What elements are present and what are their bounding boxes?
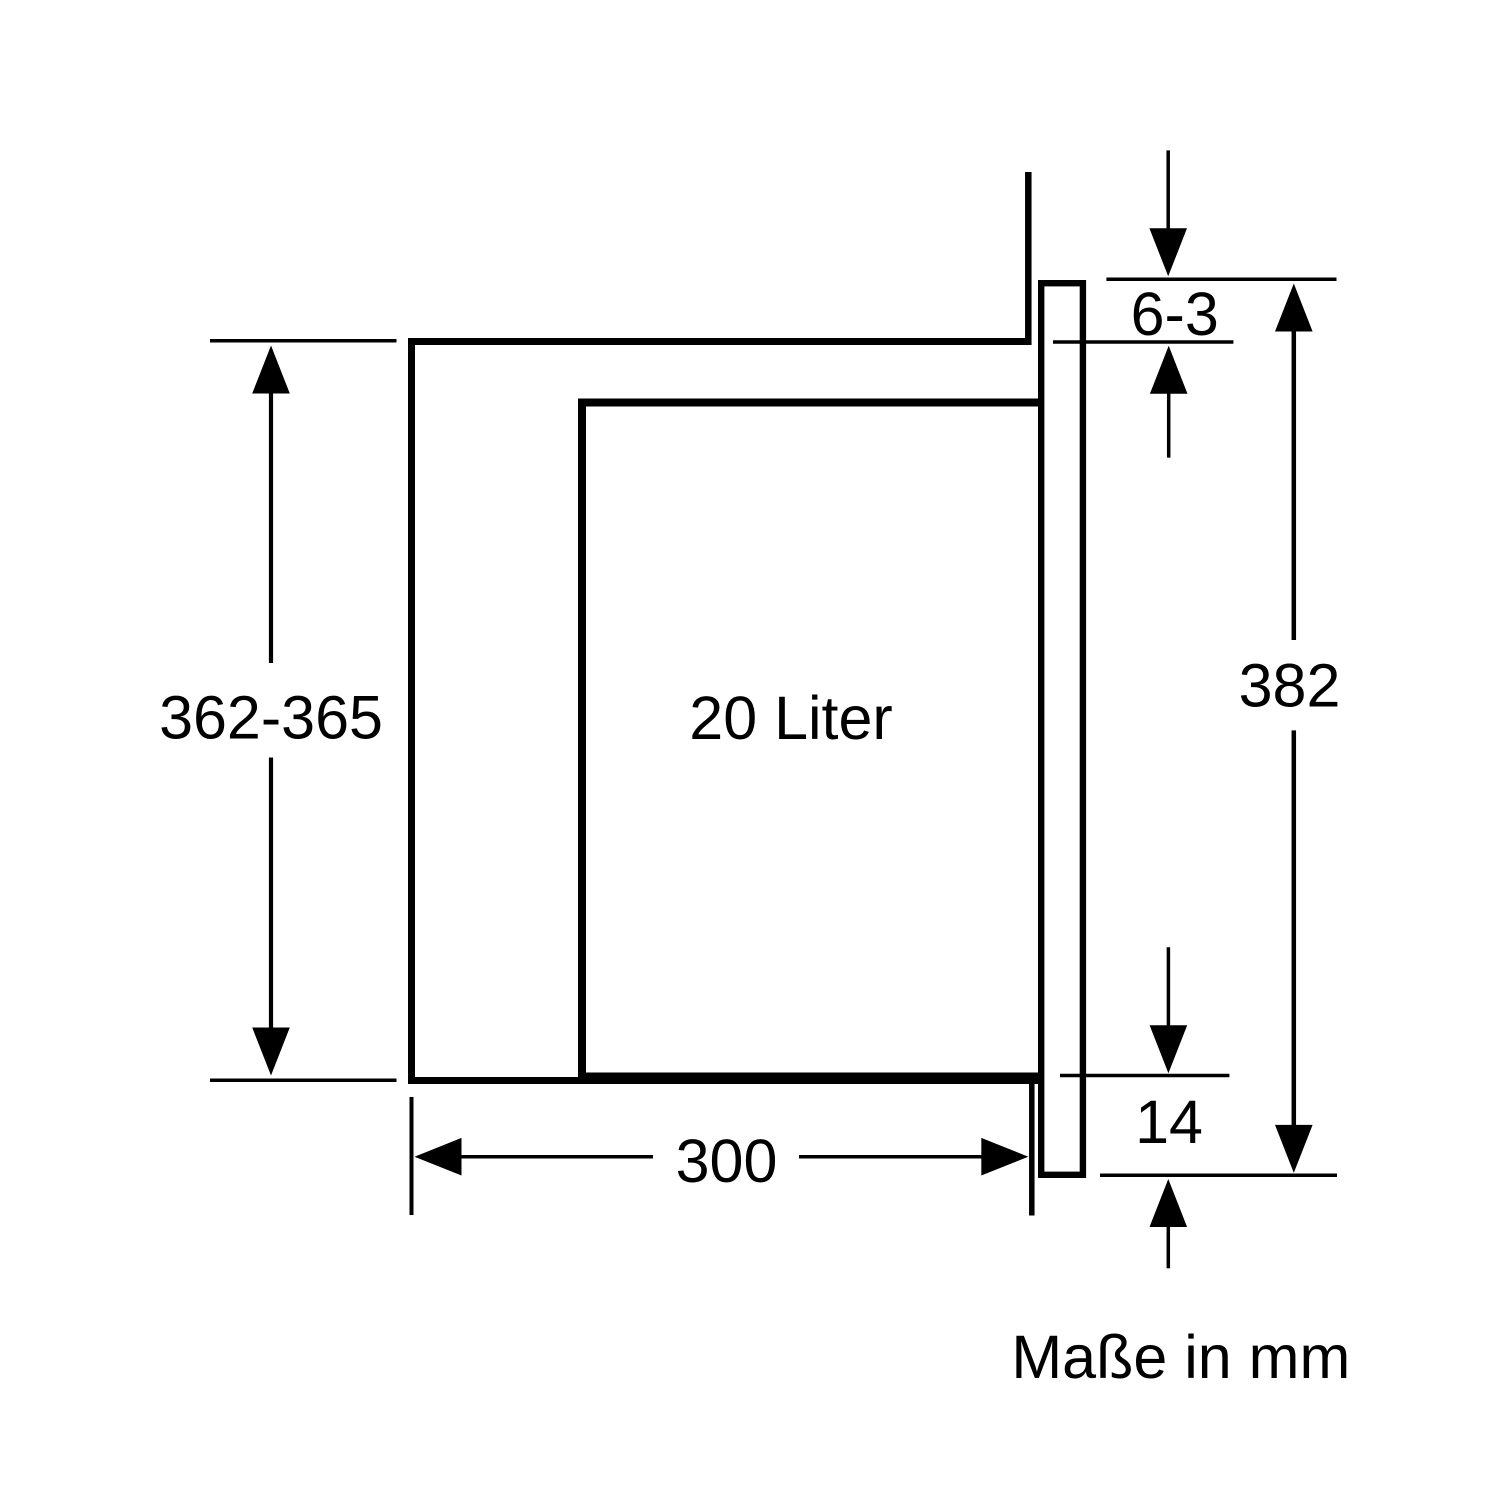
dim 300 right arrow — [799, 1138, 1028, 1176]
dim 14 up arrow — [1150, 1179, 1188, 1268]
svg-text:6-3: 6-3 — [1131, 280, 1219, 348]
wall line — [1025, 172, 1032, 345]
dim 300 left arrow — [415, 1138, 654, 1176]
dim 382 down arrow — [1275, 730, 1313, 1173]
dim 6-3 down arrow — [1149, 150, 1187, 276]
svg-text:382: 382 — [1239, 652, 1341, 720]
dim 300 left extension line — [410, 1097, 414, 1215]
front panel — [1041, 283, 1083, 1175]
dim 362-365 top extension line — [210, 339, 397, 343]
dim 362-365 bottom extension line — [210, 1078, 397, 1082]
svg-text:Maße in mm: Maße in mm — [1011, 1323, 1350, 1391]
niche outline — [412, 342, 1042, 1081]
dim 14 down arrow — [1150, 947, 1188, 1073]
svg-text:20 Liter: 20 Liter — [689, 684, 892, 752]
svg-text:362-365: 362-365 — [159, 684, 383, 752]
dim 362-365 up arrow — [252, 346, 290, 664]
dim 300 right extension line — [1029, 1080, 1035, 1216]
dim 382 up arrow — [1275, 284, 1313, 641]
dim 6-3 bottom line — [1053, 340, 1233, 344]
dim 362-365 down arrow — [252, 758, 290, 1076]
dim 6-3 top line — [1106, 277, 1336, 281]
dim 14 bottom line — [1100, 1173, 1337, 1177]
appliance body outline — [582, 403, 1041, 1077]
svg-text:300: 300 — [676, 1127, 778, 1195]
svg-text:14: 14 — [1135, 1088, 1203, 1156]
dim 6-3 up arrow — [1150, 346, 1188, 458]
dim 14 top line — [1060, 1074, 1229, 1078]
